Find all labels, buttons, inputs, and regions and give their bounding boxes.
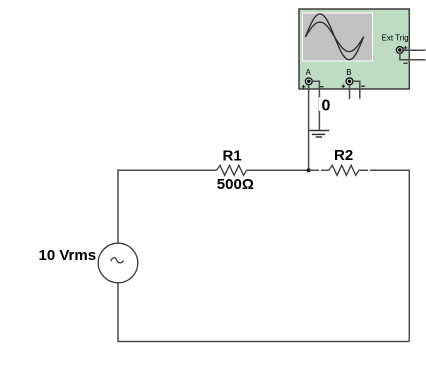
- svg-text:0: 0: [322, 97, 331, 114]
- svg-text:Ext Trig: Ext Trig: [382, 33, 409, 42]
- net label 0 background: [319, 97, 331, 111]
- svg-text:500Ω: 500Ω: [217, 176, 254, 193]
- node junction dot: [307, 168, 311, 172]
- channel B plus mark: [342, 84, 346, 88]
- svg-text:10 Vrms: 10 Vrms: [39, 247, 97, 264]
- wire channel A + to node junction: [308, 85, 310, 171]
- Ext Trig minus mark: [403, 62, 407, 64]
- wire bottom rail: [118, 341, 409, 343]
- channel A minus mark: [320, 86, 324, 88]
- wire Ext Trig + stub: [403, 49, 425, 51]
- wire top left segment: [118, 170, 217, 243]
- channel B minus mark: [361, 85, 365, 87]
- resistor R2: [329, 165, 359, 175]
- Ext Trig plus mark: [404, 46, 408, 50]
- oscilloscope XSC1 body: [299, 9, 409, 89]
- channel A terminal: [305, 78, 312, 85]
- wire source bottom to bottom rail: [117, 283, 119, 342]
- svg-text:R1: R1: [223, 147, 242, 164]
- wire R1 to junction: [247, 169, 309, 171]
- wire channel B + stub: [349, 85, 351, 100]
- Ext Trig terminal: [396, 47, 403, 54]
- wire Ext Trig - stub: [400, 53, 426, 59]
- wire channel A - to ground: [312, 81, 319, 130]
- AC source V1 circle: [98, 243, 138, 283]
- ground GND: [310, 131, 330, 138]
- wire junction to R2: [309, 169, 319, 171]
- channel A plus mark: [302, 85, 306, 89]
- oscilloscope screen: [302, 13, 373, 62]
- wire channel B - stub: [352, 81, 360, 98]
- resistor R1: [217, 165, 247, 175]
- wire R2 to right rail: [359, 169, 369, 171]
- wire R2 left lead: [321, 169, 329, 171]
- svg-text:A: A: [306, 68, 312, 77]
- scope trace inner sine: [305, 22, 363, 52]
- svg-text:B: B: [346, 68, 351, 77]
- AC source sine symbol: [111, 258, 124, 263]
- wire R2 to right rail: [370, 170, 409, 341]
- svg-text:R2: R2: [334, 147, 353, 164]
- channel B terminal: [346, 78, 353, 85]
- scope trace outer sine: [305, 14, 363, 60]
